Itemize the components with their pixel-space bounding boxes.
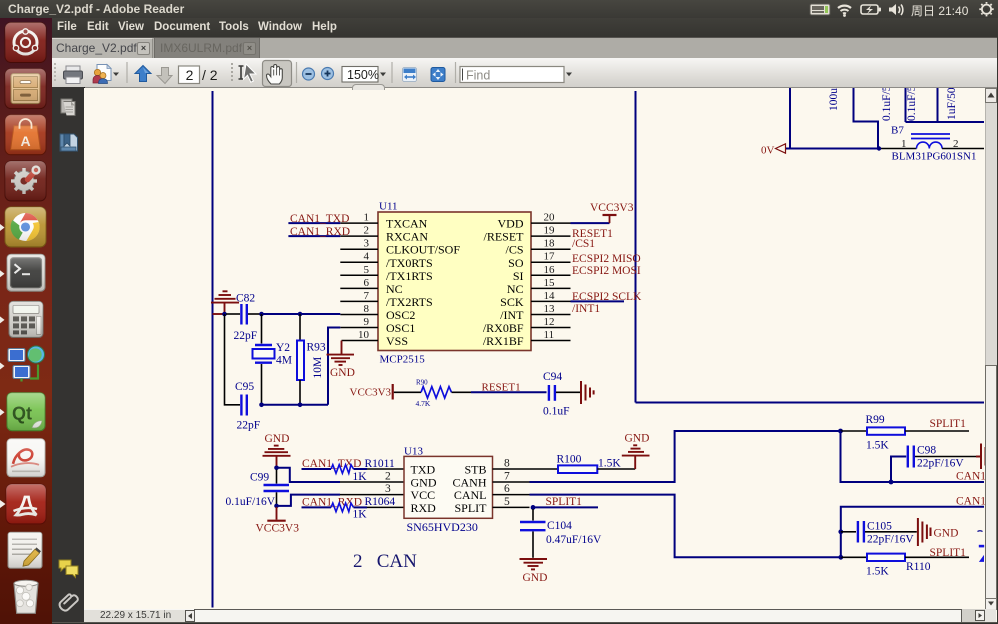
svg-text:1.5K: 1.5K — [598, 458, 621, 470]
svg-text:OSC2: OSC2 — [386, 308, 415, 322]
capacitor C94 — [543, 371, 570, 418]
svg-text:OSC1: OSC1 — [386, 321, 415, 335]
junction — [531, 505, 536, 510]
wire CANH — [530, 431, 841, 482]
wire 0V rail — [786, 148, 880, 150]
pin 18 stub — [531, 248, 571, 250]
wire to GND pin — [277, 468, 341, 482]
svg-text:Y2: Y2 — [276, 342, 290, 354]
wire — [354, 468, 368, 470]
pin 6 stub — [340, 287, 378, 289]
wire — [248, 313, 260, 315]
wire CAN1_TXD — [288, 222, 340, 224]
svg-text:20: 20 — [544, 212, 556, 224]
svg-text:CAN1_TXD: CAN1_TXD — [290, 213, 349, 225]
svg-text:3: 3 — [385, 483, 391, 495]
svg-text:Find: Find — [466, 69, 490, 83]
pin 10 stub — [342, 340, 379, 342]
svg-text:8: 8 — [504, 458, 510, 470]
power port VCC3V3 — [590, 202, 634, 223]
IC U13 SN65HVD230 body — [404, 456, 493, 518]
svg-text:12: 12 — [544, 316, 555, 328]
svg-text:18: 18 — [544, 238, 556, 250]
pin 1 stub — [340, 222, 378, 224]
pin 7 stub — [340, 300, 378, 302]
select tool — [239, 64, 257, 82]
wire — [394, 391, 421, 393]
pin 8 stub — [340, 313, 378, 315]
export icon — [93, 65, 119, 84]
svg-text:R93: R93 — [307, 342, 326, 354]
svg-text:1uF/50V: 1uF/50V — [946, 88, 958, 120]
svg-text:2: 2 — [364, 225, 370, 237]
svg-text:B7: B7 — [891, 125, 904, 137]
svg-text:NC: NC — [507, 282, 524, 296]
svg-text:R100: R100 — [557, 454, 582, 466]
ferrite bead B7 — [891, 125, 950, 149]
wire — [865, 531, 917, 533]
svg-text:3: 3 — [364, 238, 370, 250]
pin 5 stub — [493, 506, 530, 508]
svg-text:TXCAN: TXCAN — [386, 217, 428, 231]
capacitor C98 — [908, 445, 965, 470]
svg-text:R90: R90 — [416, 379, 428, 387]
crystal Y2 — [253, 314, 292, 405]
junction — [889, 480, 894, 485]
svg-text:0.1uF/5: 0.1uF/5 — [881, 88, 893, 121]
pin 13 stub — [531, 313, 571, 315]
off-sheet connector symbol (clipped at right) — [979, 545, 984, 548]
wire — [841, 556, 867, 558]
svg-text:/TX2RTS: /TX2RTS — [386, 295, 433, 309]
junction — [298, 312, 303, 317]
svg-text:VCC3V3: VCC3V3 — [256, 523, 300, 535]
svg-text:/ 2: / 2 — [202, 67, 218, 83]
svg-text:C99: C99 — [250, 472, 269, 484]
svg-text:SCK: SCK — [500, 295, 524, 309]
ground (crystal top rail) — [211, 291, 239, 314]
svg-text:SPLIT1: SPLIT1 — [930, 547, 967, 559]
wire — [937, 88, 939, 122]
resistor R1011 (R101, pin1) — [331, 458, 395, 483]
pin 4 stub — [340, 261, 378, 263]
junction — [259, 403, 264, 408]
svg-text:/RX0BF: /RX0BF — [483, 321, 524, 335]
junction — [877, 146, 881, 150]
capacitor C105 — [858, 521, 914, 546]
svg-text:GND: GND — [934, 528, 959, 540]
svg-text:C104: C104 — [547, 520, 572, 532]
svg-text:MCP2515: MCP2515 — [380, 354, 426, 366]
ground (above C99) — [263, 433, 291, 467]
wire OSC1 corner — [328, 328, 340, 405]
capacitor C99 — [226, 470, 290, 509]
svg-text:2: 2 — [385, 471, 391, 483]
capacitor C104 — [520, 509, 602, 558]
svg-text:0.47uF/16V: 0.47uF/16V — [546, 534, 602, 546]
wire — [854, 88, 879, 149]
wire CAN1_RXD — [288, 235, 340, 237]
svg-text:GND: GND — [330, 367, 355, 379]
session gear — [979, 2, 993, 16]
svg-text:/CS: /CS — [505, 243, 523, 257]
svg-text:/CS1: /CS1 — [572, 238, 595, 250]
svg-text:1K: 1K — [353, 509, 368, 521]
pin 7 stub — [493, 481, 530, 483]
down arrow (gray, disabled) — [157, 68, 172, 84]
sheet border left — [212, 91, 214, 608]
wire SPLIT1 — [533, 506, 598, 508]
capacitor C82 — [234, 293, 258, 343]
svg-text:2: 2 — [186, 67, 194, 83]
left pin numbers — [358, 212, 370, 341]
svg-text:CAN1H: CAN1H — [956, 471, 985, 483]
svg-text:R1011: R1011 — [365, 458, 395, 470]
wire SPLIT1 — [905, 430, 969, 432]
pin 1 stub (U13) — [367, 468, 404, 470]
comments icon — [59, 560, 78, 578]
keyboard indicator — [810, 4, 830, 15]
svg-text:4: 4 — [364, 251, 370, 263]
junction — [222, 312, 227, 317]
sheet border right section horizontal — [636, 402, 985, 404]
ground (R100) — [622, 433, 650, 470]
svg-text:RXCAN: RXCAN — [386, 230, 428, 244]
page number box — [179, 66, 200, 84]
hand tool pressed — [263, 61, 292, 87]
svg-text:/INT1: /INT1 — [572, 303, 600, 315]
right pin numbers — [544, 212, 556, 341]
wire left loop — [225, 314, 241, 405]
pin 3 stub — [340, 494, 404, 496]
pages panel icon — [61, 99, 75, 116]
wire VDD — [571, 222, 610, 224]
junction — [274, 504, 279, 509]
pin 20 stub — [531, 222, 571, 224]
resistor R100 — [557, 454, 622, 474]
svg-text:NC: NC — [386, 282, 403, 296]
svg-text:1K: 1K — [353, 471, 368, 483]
IC U11 MCP2515 body — [378, 212, 531, 351]
svg-text:BLM31PG601SN1: BLM31PG601SN1 — [892, 151, 977, 163]
svg-text:SPLIT: SPLIT — [454, 501, 487, 515]
left pin names — [386, 217, 460, 349]
svg-text:0.1uF/5: 0.1uF/5 — [906, 88, 918, 121]
svg-text:1: 1 — [364, 212, 370, 224]
svg-text:7: 7 — [364, 290, 370, 302]
battery — [861, 5, 878, 14]
power port VCC3V3 (below C99) — [256, 507, 300, 535]
speaker — [889, 4, 896, 15]
svg-text:16: 16 — [544, 264, 556, 276]
resistor R1064 (R106, pin4) — [331, 496, 395, 521]
pin 2 stub — [340, 481, 404, 483]
wire — [841, 507, 984, 558]
junction — [259, 312, 264, 317]
wire RESET1 — [471, 391, 547, 393]
svg-text:R99: R99 — [866, 414, 885, 426]
zoom in — [322, 68, 334, 80]
svg-text:13: 13 — [544, 303, 556, 315]
ground (VSS pin) — [327, 341, 355, 379]
wire — [530, 468, 559, 470]
svg-text:C94: C94 — [543, 371, 562, 383]
wire SCK — [571, 300, 625, 302]
pin 11 stub — [531, 340, 571, 342]
bottom status / horizontal scrollbar — [84, 609, 985, 623]
printer icon — [64, 66, 83, 84]
wire to VCC pin — [277, 495, 341, 506]
bookmarks icon — [60, 134, 78, 151]
svg-text:/INT: /INT — [500, 308, 524, 322]
paperclip icon — [58, 592, 79, 613]
pin 9 stub — [340, 327, 378, 329]
svg-text:0.1uF/16V: 0.1uF/16V — [226, 496, 276, 508]
svg-text:/RESET: /RESET — [483, 230, 524, 244]
svg-text:0.1uF: 0.1uF — [543, 406, 570, 418]
resistor R99 — [866, 414, 906, 452]
pin 3 stub — [340, 248, 378, 250]
svg-text:1: 1 — [901, 138, 907, 150]
svg-text:10: 10 — [358, 329, 370, 341]
zoom out — [303, 68, 315, 80]
svg-text:C98: C98 — [917, 445, 936, 457]
svg-text:1.5K: 1.5K — [866, 440, 889, 452]
svg-text:ECSPI2 MISO: ECSPI2 MISO — [572, 253, 641, 265]
up arrow (blue) — [135, 66, 151, 82]
junction — [274, 466, 279, 471]
svg-text:VDD: VDD — [498, 217, 524, 231]
svg-text:/TX1RTS: /TX1RTS — [386, 269, 433, 283]
svg-text:CAN1L: CAN1L — [956, 496, 985, 508]
wire — [841, 430, 868, 432]
svg-text:R110: R110 — [906, 561, 931, 573]
toolbar grip bump — [352, 84, 385, 90]
svg-text:6: 6 — [364, 277, 370, 289]
sheet border right section vertical — [635, 91, 637, 403]
svg-text:150%: 150% — [347, 68, 379, 82]
svg-text:8: 8 — [364, 303, 370, 315]
status icons top right — [800, 0, 998, 18]
wire — [226, 313, 240, 315]
ground (sideways, C105) — [918, 518, 931, 546]
svg-text:C82: C82 — [236, 293, 255, 305]
pin 14 stub — [531, 300, 571, 302]
svg-text:U11: U11 — [379, 201, 398, 213]
svg-text:SPLIT1: SPLIT1 — [930, 418, 967, 430]
svg-text:14: 14 — [544, 290, 556, 302]
svg-text:15: 15 — [544, 277, 556, 289]
wire — [942, 148, 984, 150]
svg-text:19: 19 — [544, 225, 556, 237]
wire — [841, 531, 856, 533]
junction — [298, 403, 303, 408]
junction — [838, 529, 843, 534]
wire — [880, 148, 917, 150]
svg-text:SO: SO — [508, 256, 524, 270]
svg-text:GND: GND — [265, 433, 290, 445]
svg-text:22pF: 22pF — [234, 330, 258, 342]
wire TXD — [302, 468, 332, 470]
wire RXD — [302, 506, 332, 508]
wire — [354, 506, 368, 508]
svg-text:22pF/16V: 22pF/16V — [867, 534, 914, 546]
svg-text:SI: SI — [513, 269, 524, 283]
svg-text:C95: C95 — [235, 381, 254, 393]
svg-text:/TX0RTS: /TX0RTS — [386, 256, 433, 270]
svg-text:TXD: TXD — [411, 463, 436, 477]
U13 pin names — [411, 463, 437, 515]
svg-text:GND: GND — [523, 572, 548, 584]
pin 19 stub — [531, 235, 571, 237]
svg-text:C105: C105 — [867, 521, 892, 533]
svg-text:SPLIT1: SPLIT1 — [546, 496, 583, 508]
right pin names — [483, 217, 524, 349]
pin 2 stub — [340, 235, 378, 237]
power port VCC3V3 — [350, 384, 393, 400]
svg-text:0V: 0V — [761, 145, 775, 157]
svg-text:9: 9 — [364, 316, 370, 328]
wire C98 branch — [891, 457, 906, 483]
wire — [905, 88, 907, 122]
pin 12 stub — [531, 327, 571, 329]
wifi — [838, 6, 851, 14]
grip dots — [54, 63, 56, 82]
pin 16 stub — [531, 274, 571, 276]
wire — [906, 121, 985, 123]
capacitor C95 — [235, 381, 260, 432]
svg-text:17: 17 — [544, 251, 556, 263]
svg-text:ECSPI2 MOSI: ECSPI2 MOSI — [572, 265, 641, 277]
svg-text:4M: 4M — [276, 355, 292, 367]
vertical scrollbar — [985, 88, 997, 609]
svg-text:7: 7 — [504, 471, 510, 483]
junction — [838, 555, 843, 560]
svg-text:RXD: RXD — [411, 501, 437, 515]
ground (C104) — [520, 559, 548, 584]
wire — [597, 468, 635, 470]
svg-text:5: 5 — [504, 496, 510, 508]
wire bottom rail — [260, 404, 328, 406]
pin 15 stub — [531, 287, 571, 289]
svg-text:CLKOUT/SOF: CLKOUT/SOF — [386, 243, 460, 257]
svg-text:6: 6 — [504, 483, 510, 495]
pin 17 stub — [531, 261, 571, 263]
svg-text:R1064: R1064 — [365, 496, 396, 508]
wire — [915, 456, 976, 458]
find box — [460, 67, 564, 83]
svg-text:22pF/16V: 22pF/16V — [917, 458, 964, 470]
svg-text:RESET1: RESET1 — [482, 382, 521, 394]
wire SPLIT1 — [905, 556, 969, 558]
svg-text:VCC3V3: VCC3V3 — [350, 387, 392, 399]
svg-text:2 CAN: 2 CAN — [353, 551, 417, 572]
wire — [262, 313, 341, 315]
svg-text:CAN1_RXD: CAN1_RXD — [290, 226, 350, 238]
fit page icon — [431, 68, 445, 82]
wire CANL — [530, 495, 841, 558]
resistor R90 — [416, 379, 452, 409]
pin 5 stub — [340, 274, 378, 276]
svg-text:1.5K: 1.5K — [866, 566, 889, 578]
junction — [838, 429, 843, 434]
pin 4 stub — [367, 506, 404, 508]
ground (sideways, C94) — [581, 381, 594, 404]
svg-text:U13: U13 — [404, 446, 423, 458]
ground (sideways, C98) — [976, 444, 986, 470]
svg-text:SN65HVD230: SN65HVD230 — [407, 520, 478, 534]
svg-text:VSS: VSS — [386, 334, 408, 348]
pin 8 stub — [493, 468, 530, 470]
svg-text:4.7K: 4.7K — [416, 399, 431, 408]
wire — [556, 391, 580, 393]
svg-text:10M: 10M — [312, 357, 324, 379]
svg-text:VCC3V3: VCC3V3 — [590, 202, 634, 214]
svg-text:5: 5 — [364, 264, 370, 276]
150% combo — [342, 67, 378, 83]
svg-text:STB: STB — [464, 463, 486, 477]
svg-text:/RX1BF: /RX1BF — [483, 334, 524, 348]
resistor R110 — [866, 554, 931, 578]
resistor R93 — [297, 314, 326, 405]
svg-text:100u: 100u — [828, 88, 840, 111]
wire — [841, 431, 985, 482]
svg-text:11: 11 — [544, 329, 555, 341]
svg-text:GND: GND — [625, 433, 650, 445]
wire — [789, 88, 791, 149]
svg-text:22pF: 22pF — [237, 420, 261, 432]
wire — [452, 391, 472, 393]
pin 6 stub — [493, 494, 530, 496]
fit width icon — [403, 68, 417, 82]
